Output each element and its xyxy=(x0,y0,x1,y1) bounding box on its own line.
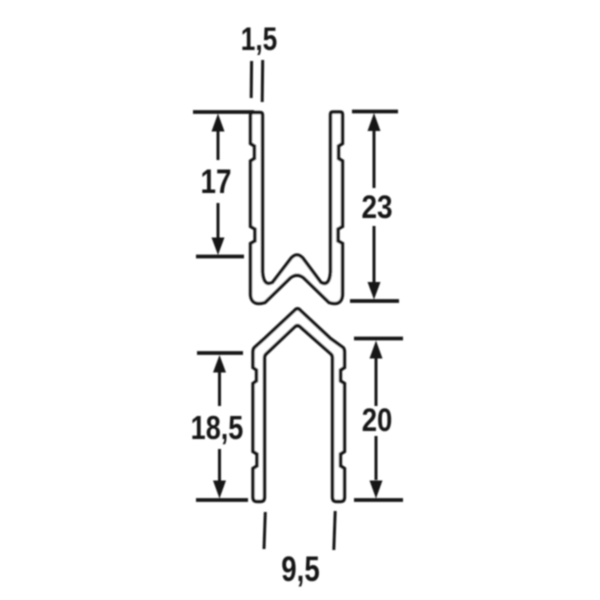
svg-text:20: 20 xyxy=(362,403,393,438)
svg-text:18,5: 18,5 xyxy=(191,411,244,447)
svg-text:1,5: 1,5 xyxy=(241,23,277,58)
svg-text:23: 23 xyxy=(361,190,392,225)
svg-text:9,5: 9,5 xyxy=(281,549,319,589)
svg-text:17: 17 xyxy=(200,162,231,200)
